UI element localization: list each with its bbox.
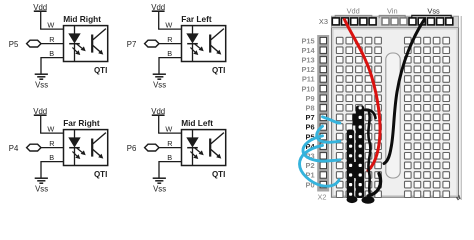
svg-text:Vdd: Vdd [347, 7, 360, 16]
I/O pin P4 [9, 144, 41, 153]
wire R from pin P6 to sensor [159, 139, 182, 148]
Vdd power symbol (P6 unit) [151, 107, 165, 133]
svg-text:P8: P8 [306, 104, 315, 113]
header X2 I/O pin strip [317, 35, 329, 192]
svg-text:X3: X3 [319, 17, 328, 26]
wire B from sensor to ground (P7 unit) [159, 49, 182, 73]
header X3 socket pins (Vin group) [382, 18, 407, 25]
breadboard socket hole grid [336, 37, 449, 197]
wire W from Vdd to sensor (P6 unit) [158, 125, 181, 134]
Vss rail bracket [412, 15, 451, 18]
svg-text:Vss: Vss [427, 7, 440, 16]
svg-text:Far Right: Far Right [63, 118, 100, 128]
svg-text:P13: P13 [301, 56, 314, 65]
black QTI cable lead top [364, 110, 376, 118]
breadboard center channel [386, 53, 400, 178]
wire R from pin P7 to sensor [159, 35, 182, 44]
svg-text:P4: P4 [9, 144, 19, 153]
wire B from sensor to ground (P5 unit) [41, 49, 64, 73]
Vdd rail bracket [335, 15, 372, 18]
svg-text:P5: P5 [9, 40, 19, 49]
svg-text:W: W [47, 125, 54, 134]
infrared LED (P5 unit) [69, 26, 80, 62]
header X3 socket pins (Vss group) [409, 18, 453, 25]
svg-text:QTI: QTI [212, 66, 225, 75]
svg-text:Mid Left: Mid Left [181, 118, 213, 128]
QTI sensor unit P5 "Mid Right" [0, 0, 1, 1]
black jumper wire Vss to QTI ground [384, 20, 424, 164]
I/O pin P5 [9, 40, 41, 49]
svg-text:B: B [49, 153, 54, 162]
svg-text:W: W [47, 21, 54, 30]
Vdd power symbol (P5 unit) [33, 3, 47, 29]
svg-text:Mid Right: Mid Right [63, 14, 101, 24]
ground Vss symbol (P4 unit) [35, 178, 48, 183]
svg-text:P7: P7 [306, 113, 315, 122]
board right shadow line [460, 16, 462, 200]
board edge shadow [457, 195, 461, 200]
svg-text:P10: P10 [301, 84, 314, 93]
sensor body box (P4 unit) [64, 130, 108, 166]
svg-text:QTI: QTI [94, 66, 107, 75]
sensor body box (P5 unit) [64, 26, 108, 62]
connector housing bridge bottom [353, 162, 358, 178]
svg-text:X2: X2 [318, 192, 327, 201]
svg-text:B: B [167, 49, 172, 58]
header X3 socket pins (Vdd group) [332, 18, 376, 25]
QTI cable black lead weaving [368, 110, 370, 195]
ground Vss symbol (P7 unit) [153, 74, 166, 79]
breadboard body [332, 28, 459, 198]
Vdd power symbol (P4 unit) [33, 107, 47, 133]
svg-text:R: R [167, 139, 172, 148]
infrared LED (P6 unit) [187, 130, 198, 166]
red jumper wire Vdd to QTI power [345, 20, 381, 171]
wire R from pin P4 to sensor [41, 139, 64, 148]
blue signal wire P6 [317, 126, 340, 142]
phototransistor (P5 unit) [92, 29, 106, 55]
wire B from sensor to ground (P6 unit) [159, 153, 182, 177]
wire R from pin P5 to sensor [41, 35, 64, 44]
ground Vss symbol (P5 unit) [35, 74, 48, 79]
svg-text:R: R [167, 35, 172, 44]
svg-text:Vss: Vss [35, 185, 48, 194]
svg-text:Vin: Vin [387, 7, 398, 16]
svg-text:Vss: Vss [35, 81, 48, 90]
wire W from Vdd to sensor (P4 unit) [40, 125, 63, 134]
blue signal wire P7 [323, 117, 340, 123]
svg-text:P2: P2 [306, 161, 315, 170]
QTI sensor unit P7 "Far Left" [0, 0, 1, 1]
svg-text:P9: P9 [306, 94, 315, 103]
svg-text:QTI: QTI [94, 170, 107, 179]
svg-text:R: R [49, 35, 54, 44]
infrared LED (P4 unit) [69, 130, 80, 166]
breadboard module [300, 7, 462, 204]
connector housing bridge top [353, 114, 358, 126]
I/O pin P7 [127, 40, 159, 49]
blue signal wire P4 [300, 145, 340, 186]
svg-text:Vss: Vss [153, 81, 166, 90]
I/O pin labels P15-P0 [301, 36, 315, 189]
svg-text:B: B [49, 49, 54, 58]
ground Vss symbol (P6 unit) [153, 178, 166, 183]
LED emission arrows (P5 unit) [72, 44, 85, 55]
header X3 power strip [332, 16, 459, 27]
svg-text:W: W [165, 21, 172, 30]
infrared LED (P7 unit) [187, 26, 198, 62]
black QTI cable lead bottom [368, 174, 381, 197]
wire B from sensor to ground (P4 unit) [41, 153, 64, 177]
LED emission arrows (P7 unit) [190, 44, 203, 55]
phototransistor (P4 unit) [92, 133, 106, 159]
I/O pin P6 [127, 144, 159, 153]
svg-text:P7: P7 [127, 40, 137, 49]
LED emission arrows (P6 unit) [190, 148, 203, 159]
wire W from Vdd to sensor (P7 unit) [158, 21, 181, 30]
svg-text:P12: P12 [301, 65, 314, 74]
svg-text:P6: P6 [306, 123, 315, 132]
Vdd power symbol (P7 unit) [151, 3, 165, 29]
svg-text:P6: P6 [127, 144, 137, 153]
svg-text:Far Left: Far Left [181, 14, 212, 24]
svg-text:QTI: QTI [212, 170, 225, 179]
svg-text:P14: P14 [301, 46, 315, 55]
sensor body box (P6 unit) [182, 130, 226, 166]
QTI sensor unit P4 "Far Right" [0, 0, 1, 1]
svg-text:Vss: Vss [153, 185, 166, 194]
svg-text:P11: P11 [302, 75, 315, 84]
QTI cable connector bar 1 [356, 106, 364, 199]
LED emission arrows (P4 unit) [72, 148, 85, 159]
wire W from Vdd to sensor (P5 unit) [40, 21, 63, 30]
svg-text:W: W [165, 125, 172, 134]
svg-text:P15: P15 [301, 36, 314, 45]
QTI cable stubs below board [347, 196, 358, 203]
blue signal wire P5 [303, 136, 340, 161]
phototransistor (P6 unit) [210, 133, 224, 159]
connector pin dots [349, 106, 362, 196]
svg-text:B: B [167, 153, 172, 162]
phototransistor (P7 unit) [210, 29, 224, 55]
sensor body box (P7 unit) [182, 26, 226, 62]
QTI cable connector bar 2 [347, 130, 354, 200]
QTI sensor unit P6 "Mid Left" [0, 0, 1, 1]
Vin rail bracket [379, 15, 405, 18]
svg-text:R: R [49, 139, 54, 148]
